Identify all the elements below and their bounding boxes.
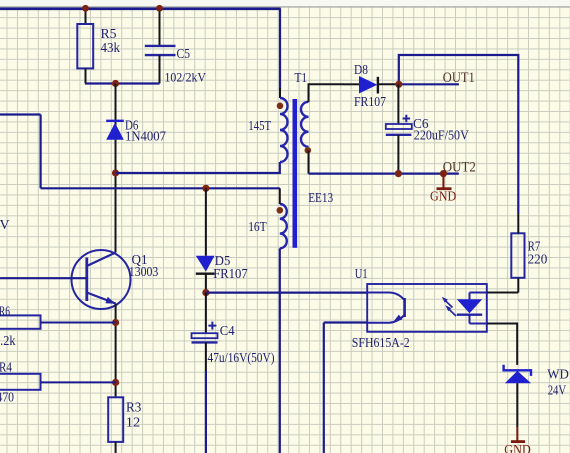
power port GND (output) xyxy=(430,174,457,204)
wire D6 / Q1 collector vertical xyxy=(115,84,117,253)
polarity dot secondary xyxy=(305,147,312,154)
svg-text:R6: R6 xyxy=(0,304,10,319)
net label V (clipped) xyxy=(0,218,10,233)
svg-text:OUT1: OUT1 xyxy=(443,70,475,86)
svg-text:EE13: EE13 xyxy=(308,191,333,206)
wire primary bottom xyxy=(116,162,280,173)
svg-text:WD1: WD1 xyxy=(547,367,570,382)
wire R5/C5 bottom xyxy=(85,82,160,84)
diode D5 xyxy=(196,254,248,282)
wire U1 pin2 down xyxy=(323,323,325,453)
wire D5 node to U1 pin1 xyxy=(206,292,367,294)
pin R7 bottom xyxy=(517,278,519,293)
svg-text:GND: GND xyxy=(430,189,457,204)
resistor R6 xyxy=(0,304,41,349)
power port GND (bottom) xyxy=(504,427,531,453)
wire aux to D5 xyxy=(205,188,207,256)
capacitor C6 xyxy=(386,115,469,143)
svg-text:GND: GND xyxy=(504,442,531,453)
pin T1 primary top xyxy=(279,88,281,98)
svg-text:102/2kV: 102/2kV xyxy=(165,69,207,84)
svg-text:C5: C5 xyxy=(177,47,191,62)
net label OUT2 xyxy=(443,160,476,176)
svg-text:220uF/50V: 220uF/50V xyxy=(414,127,469,142)
svg-text:2.2k: 2.2k xyxy=(0,334,16,349)
wire R5 top stub xyxy=(85,9,87,24)
svg-text:12: 12 xyxy=(126,415,141,430)
junction D5 / U1 wire xyxy=(202,289,209,296)
T1 secondary winding xyxy=(301,102,309,147)
polarity dot aux xyxy=(277,207,284,214)
svg-text:24V: 24V xyxy=(548,384,567,399)
wire left input upper xyxy=(0,113,41,115)
diode D8 xyxy=(354,63,386,110)
T1 core xyxy=(293,99,298,248)
pin 16T top xyxy=(279,188,281,204)
svg-text:D8: D8 xyxy=(354,63,368,78)
net label OUT1 xyxy=(443,70,475,86)
T1 aux winding 16T xyxy=(248,204,287,248)
capacitor C5 xyxy=(145,46,207,84)
svg-text:1N4007: 1N4007 xyxy=(125,129,166,144)
wire 16T bottom to sheet bottom xyxy=(279,248,281,453)
wire D8 to OUT1 xyxy=(399,83,459,85)
junction OUT1 node xyxy=(395,81,402,88)
optocoupler U1 xyxy=(352,267,487,351)
U1 phototransistor xyxy=(367,293,404,324)
resistor R4 xyxy=(0,361,41,406)
junction top bus / C5 xyxy=(156,5,163,12)
diode D6 xyxy=(106,119,166,144)
wire top bus xyxy=(0,7,281,10)
sheet top edge band xyxy=(0,0,570,6)
junction emitter / R6 xyxy=(112,319,119,326)
junction aux rail / D5 xyxy=(202,185,209,192)
U1 LED xyxy=(457,293,487,324)
junction collector line / primary-bottom wire xyxy=(112,169,119,176)
pin R7 top xyxy=(517,213,519,233)
svg-text:145T: 145T xyxy=(248,119,271,134)
svg-text:R5: R5 xyxy=(101,27,117,42)
svg-text:470: 470 xyxy=(0,391,14,406)
transistor Q1 xyxy=(72,250,159,309)
pin D5 cathode down xyxy=(205,274,207,293)
pin U1 collector out xyxy=(487,292,519,294)
transformer T1 xyxy=(295,71,334,206)
resistor R5 xyxy=(77,24,120,68)
svg-text:OUT2: OUT2 xyxy=(443,160,476,176)
svg-text:47u/16V(50V): 47u/16V(50V) xyxy=(208,350,275,365)
svg-text:13003: 13003 xyxy=(129,265,159,280)
junction snubber / D6 xyxy=(112,80,119,87)
svg-text:R4: R4 xyxy=(0,361,12,376)
svg-text:R3: R3 xyxy=(126,400,141,415)
svg-text:U1: U1 xyxy=(355,267,368,282)
svg-text:FR107: FR107 xyxy=(354,95,386,110)
wire D5 node to C4 xyxy=(205,293,207,334)
pin R3 bottom xyxy=(115,442,117,453)
wire left riser xyxy=(39,115,41,189)
junction emitter / R4 xyxy=(112,379,119,386)
pin T1 secondary bottom xyxy=(308,150,310,173)
wire OUT1 riser to R7 xyxy=(399,55,519,213)
T1 primary winding 145T xyxy=(248,98,287,162)
pin T1 secondary top xyxy=(309,84,345,102)
pin C6 top xyxy=(397,84,399,124)
junction OUT2 / GND xyxy=(440,170,447,177)
wire OUT2 xyxy=(309,173,459,175)
pin U1 emitter out / wire to zener xyxy=(487,324,517,365)
pin R5 bottom xyxy=(85,68,87,83)
svg-text:SFH615A-2: SFH615A-2 xyxy=(352,336,410,351)
svg-text:220: 220 xyxy=(528,252,548,267)
junction top bus / R5 xyxy=(82,5,89,12)
wire C5 top stub xyxy=(159,9,161,46)
U1 light arrows xyxy=(442,297,456,316)
pin C5 bottom xyxy=(159,55,161,83)
svg-text:43k: 43k xyxy=(101,41,121,56)
wire U1 pin2 xyxy=(324,321,367,323)
pin D8 anode xyxy=(344,83,359,85)
resistor R7 xyxy=(511,233,547,277)
svg-text:C4: C4 xyxy=(220,324,235,339)
wire top bus to T1 primary top xyxy=(279,8,281,90)
pin C6 bottom xyxy=(397,135,399,174)
junction OUT2 / C6 xyxy=(395,170,402,177)
pin D8 cathode xyxy=(378,83,399,85)
zener diode WD1 xyxy=(504,365,570,399)
svg-text:T1: T1 xyxy=(295,71,308,86)
svg-text:FR107: FR107 xyxy=(213,267,248,282)
resistor R3 xyxy=(108,397,141,442)
wire R6 to emitter xyxy=(41,322,116,324)
wire Q1 base xyxy=(0,277,87,279)
wire zener to GND xyxy=(516,383,518,427)
wire C4 bottom to sheet bottom xyxy=(205,342,207,453)
svg-text:16T: 16T xyxy=(248,220,267,235)
wire aux rail xyxy=(41,187,280,189)
capacitor C4 xyxy=(192,322,275,365)
wire R4 to emitter xyxy=(41,381,116,383)
svg-text:V: V xyxy=(0,218,10,233)
polarity dot primary xyxy=(277,103,284,110)
wire Q1 emitter down xyxy=(115,304,117,398)
